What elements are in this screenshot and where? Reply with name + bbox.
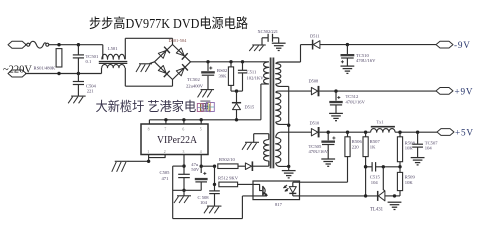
ground (earth) below TC507 (411, 158, 425, 165)
svg-text:C511: C511 (247, 70, 257, 75)
label TL431 (370, 207, 384, 212)
wire pin 4 (Vdd) (200, 155, 217, 174)
svg-text:R502/10: R502/10 (219, 157, 236, 162)
svg-text:220: 220 (352, 144, 360, 149)
svg-text:10K: 10K (405, 180, 414, 185)
svg-text:221: 221 (87, 88, 95, 93)
label -9V (454, 40, 471, 50)
svg-text:5: 5 (200, 128, 202, 132)
optocoupler U503 817 box (253, 181, 300, 200)
wire aux top (254, 134, 269, 142)
svg-text:Tx1: Tx1 (377, 119, 384, 124)
common-mode choke L501 (99, 54, 128, 67)
pin numbers 8 7 6 5 (148, 128, 202, 132)
wire w2 bottom (276, 122, 289, 124)
label C508 104 (198, 195, 210, 205)
output terminal -9V (436, 41, 453, 48)
svg-text:L501: L501 (108, 46, 118, 51)
capacitor TC501 (73, 45, 84, 74)
transformer T501 secondary winding 3 (276, 132, 281, 163)
svg-text:470U/16V: 470U/16V (346, 99, 366, 104)
transformer T501 primary winding (264, 62, 269, 84)
label TC502 22u400V (186, 77, 204, 89)
watermark text (96, 99, 212, 114)
svg-text:104: 104 (425, 146, 433, 151)
label L501 (108, 46, 118, 51)
pin numbers 1 2 3 4 (147, 150, 202, 154)
svg-text:1: 1 (147, 150, 149, 154)
label TC510 470U/16V (356, 53, 376, 63)
capacitor C515 (372, 162, 376, 171)
wire w3 bottom (276, 163, 291, 170)
transformer T501 secondary winding 1 (276, 62, 301, 84)
wire aux bottom (266, 161, 269, 166)
wire drain rail (149, 118, 261, 124)
label ~220V (3, 65, 32, 76)
svg-text:D511: D511 (310, 34, 320, 39)
svg-text:7: 7 (164, 128, 166, 132)
label D515 (245, 105, 256, 110)
diode D506 (238, 161, 266, 171)
svg-text:817: 817 (275, 202, 283, 207)
ground (earth) below TC512 (329, 113, 343, 120)
label D511 (310, 34, 320, 39)
svg-text:3: 3 (183, 150, 185, 154)
wire opto LED anode (293, 157, 348, 183)
wire +5V tap (281, 131, 312, 133)
ground (earth) below TC510 (341, 66, 355, 73)
svg-text:TL431: TL431 (370, 207, 384, 212)
svg-text:471: 471 (162, 176, 170, 181)
ground (chassis) at bridge negative (136, 62, 155, 72)
label +5V (455, 127, 474, 137)
label R506 220 (352, 139, 363, 149)
transformer T501 secondary winding 2 (276, 91, 281, 122)
wire AC live rail (49, 43, 103, 59)
svg-text:39K: 39K (219, 74, 228, 79)
fuse F501 (25, 41, 49, 48)
wire opto-TL431 rail (300, 194, 401, 197)
svg-text:104: 104 (200, 200, 208, 205)
svg-text:RS02: RS02 (217, 68, 228, 73)
svg-text:8: 8 (148, 128, 150, 132)
svg-text:470U/16V: 470U/16V (309, 149, 329, 154)
svg-text:6: 6 (182, 128, 184, 132)
svg-text:+9V: +9V (455, 86, 474, 96)
resistor R508 (397, 132, 402, 167)
ground (chassis) aux (242, 142, 259, 150)
ground (earth) secondary common (282, 171, 296, 178)
wire -9V rail (320, 43, 436, 46)
capacitor TC502 (201, 62, 215, 90)
capacitor C508 (209, 191, 220, 206)
wire w1 bottom (276, 84, 291, 166)
diode D510 (311, 127, 318, 137)
capacitor TC512 (329, 91, 342, 113)
label C504 221 (86, 84, 97, 94)
svg-text:C505: C505 (160, 170, 171, 175)
ground (chassis) below TC502 (198, 90, 215, 98)
wire feedback row (364, 165, 402, 168)
ground (chassis) VIPer source (112, 161, 129, 172)
svg-text:RS01/480K: RS01/480K (34, 65, 56, 70)
opto LED (284, 182, 300, 196)
input terminal live (8, 41, 26, 48)
ground (chassis) below C504 (68, 96, 86, 103)
label 817 (275, 202, 283, 207)
resistor R502 (218, 164, 238, 169)
wire choke to bridge (top) (125, 38, 172, 59)
svg-text:D501-504: D501-504 (169, 38, 188, 43)
transformer T501 core (271, 58, 274, 169)
wire primary bottom (261, 84, 269, 120)
wire opto emitter (242, 195, 267, 197)
wire pins 1-2 to ground (128, 155, 165, 164)
svg-text:TC502: TC502 (187, 77, 200, 82)
resistor RS01 (56, 49, 62, 67)
label TC507 104 (425, 140, 438, 150)
capacitor TC505 (321, 132, 335, 159)
capacitor C504 (73, 74, 84, 96)
label R507 1K (370, 139, 381, 149)
label RS02 39K (217, 68, 228, 78)
svg-text:50V: 50V (191, 167, 200, 172)
output terminal +9V (436, 88, 453, 95)
wire TL431 ref (383, 167, 385, 191)
diode D511 (313, 40, 320, 50)
node snubber junction (231, 89, 243, 102)
wire +5V rail (320, 131, 437, 134)
label R509 10K (405, 175, 416, 185)
label VIPer22A (157, 135, 197, 146)
IC U501 VIPer22A (141, 124, 208, 155)
svg-text:1K: 1K (370, 144, 376, 149)
shunt regulator TL431 (378, 191, 385, 201)
svg-text:R512 9KV: R512 9KV (218, 175, 239, 180)
capacitor C506 47u 50V (195, 172, 208, 190)
label Tx1 (377, 119, 384, 124)
label D501-504 (169, 38, 188, 43)
watermark seal 1 (197, 104, 203, 112)
capacitor XC502 (262, 34, 279, 45)
capacitor C511 (238, 62, 247, 91)
label +9V (455, 86, 474, 96)
label C505 471 (160, 170, 171, 181)
wire choke to bridge (bottom) (125, 68, 172, 87)
diode D508 (311, 86, 318, 96)
wire R512 to opto (238, 183, 253, 185)
label TC501 0.1 (86, 54, 99, 64)
label R508 10K (405, 140, 416, 150)
svg-text:2: 2 (164, 150, 166, 154)
label D510 (310, 120, 321, 125)
svg-text:-9V: -9V (454, 40, 471, 50)
svg-text:22u400V: 22u400V (186, 83, 204, 88)
label TC512 470U/16V (346, 94, 366, 104)
ground (chassis) below C508 (204, 206, 222, 213)
watermark seal 2 (206, 103, 214, 112)
label D508 (309, 79, 320, 84)
wire pin 3 (FB) (173, 155, 243, 219)
svg-text:10K: 10K (405, 146, 414, 151)
capacitor C505 (173, 174, 202, 195)
resistor R506 (345, 132, 350, 156)
output terminal +5V (437, 129, 454, 136)
opto phototransistor (253, 184, 267, 195)
svg-text:+5V: +5V (455, 127, 474, 137)
svg-text:XC502/221: XC502/221 (258, 29, 279, 34)
svg-text:TC501: TC501 (86, 54, 99, 59)
wire FB divider column (213, 166, 216, 190)
wire +9V rail (320, 89, 437, 92)
label 47u 50V (191, 162, 200, 172)
resistor R509 (397, 167, 402, 196)
label TC505 470U/16V (309, 144, 329, 154)
ground (chassis) XC502 left (249, 45, 266, 51)
svg-text:D515: D515 (245, 105, 256, 110)
resistor RS02 (228, 62, 233, 91)
svg-text:D508: D508 (309, 79, 320, 84)
wire DC+ rail (191, 60, 269, 63)
wire +9V tap (279, 90, 312, 92)
svg-text:步步高DV977K DVD电源电路: 步步高DV977K DVD电源电路 (89, 15, 248, 31)
bridge rectifier D501-504 (155, 45, 191, 80)
capacitor TC510 (341, 45, 355, 66)
ground (earth) TL431 (388, 202, 402, 209)
label XC502/221 (258, 29, 279, 34)
diode D515 (232, 103, 241, 120)
wire -9V tap (301, 45, 313, 62)
label R502/10 (219, 157, 236, 162)
wire AC neutral rail (25, 68, 102, 76)
svg-text:VIPer22A: VIPer22A (157, 135, 197, 146)
svg-text:4: 4 (200, 150, 202, 154)
label C511 102/1KV (247, 70, 265, 81)
resistor R507 (363, 132, 368, 196)
label RS01/480K (34, 65, 56, 70)
ground (earth) below TC505 (321, 159, 335, 166)
ground (earth) XC502 right (272, 43, 286, 50)
svg-text:102/1KV: 102/1KV (247, 75, 265, 80)
capacitor TC507 (412, 132, 423, 157)
svg-text:0.1: 0.1 (86, 59, 92, 64)
transformer T501 aux winding (264, 140, 269, 162)
label R512 9KV (218, 175, 239, 180)
svg-text:D510: D510 (310, 120, 321, 125)
svg-text:104: 104 (371, 180, 379, 185)
resistor R512 (219, 182, 238, 187)
svg-text:470U/16V: 470U/16V (356, 58, 376, 63)
inductor Tx1 (371, 127, 395, 133)
svg-text:TC510: TC510 (356, 53, 369, 58)
label C515 104 (370, 175, 381, 185)
input terminal neutral (8, 70, 26, 77)
svg-text:大新榄圩 艺港家电 画: 大新榄圩 艺港家电 画 (96, 99, 212, 114)
title text (89, 15, 248, 31)
ground (chassis) below C505 (174, 196, 191, 203)
